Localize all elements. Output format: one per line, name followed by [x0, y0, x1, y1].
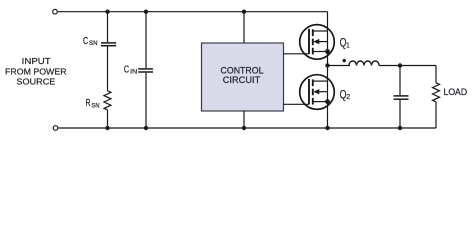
svg-text:CIRCUIT: CIRCUIT [223, 75, 261, 85]
junction dot top rail CIN [144, 10, 148, 14]
wire load top [435, 66, 437, 83]
wire control to Q2 gate [284, 103, 310, 105]
junction output node [398, 63, 402, 67]
wire Q1 drain [327, 12, 329, 52]
label Q1 [340, 36, 350, 50]
wire top rail [58, 11, 328, 13]
svg-text:INPUT: INPUT [22, 56, 52, 66]
wire CSN to RSN [107, 47, 109, 91]
svg-text:FROM POWER: FROM POWER [5, 67, 67, 77]
label INPUT FROM POWER SOURCE [5, 56, 67, 87]
wire output capacitor bottom [399, 100, 401, 128]
wire CIN bottom [145, 73, 147, 128]
input terminal bottom [53, 126, 58, 131]
junction dot top rail control [242, 10, 246, 14]
resistor LOAD [433, 83, 440, 102]
input terminal top [53, 9, 58, 14]
svg-text:LOAD: LOAD [444, 87, 468, 97]
junction switch node [325, 63, 329, 67]
capacitor CIN [138, 69, 153, 72]
svg-text:IN: IN [130, 68, 137, 75]
wire Q2 source [327, 102, 329, 128]
svg-text:SOURCE: SOURCE [16, 77, 55, 87]
transistor Q1 [300, 25, 335, 60]
wire Q1 source to switch node [327, 52, 329, 66]
svg-text:C: C [83, 36, 88, 47]
svg-text:C: C [124, 65, 129, 76]
wire load bottom [435, 102, 437, 128]
control circuit block [202, 43, 284, 111]
label CIN [124, 65, 138, 76]
svg-text:1: 1 [346, 42, 349, 49]
label CSN [83, 36, 98, 47]
junction dot bottom rail control [242, 126, 246, 130]
wire control to Q1 gate [284, 53, 310, 55]
wire Q2 drain [327, 66, 329, 102]
capacitor CSN [101, 43, 116, 46]
wire control circuit top [243, 12, 245, 43]
inductor phase dot [343, 59, 346, 62]
junction dot bottom rail Q2 [325, 126, 329, 130]
wire inductor to output [379, 65, 436, 67]
svg-text:SN: SN [92, 103, 100, 110]
svg-text:2: 2 [346, 94, 350, 101]
junction dot bottom rail RSN [105, 126, 109, 130]
wire output capacitor top [399, 66, 401, 96]
wire switch node to inductor [328, 65, 351, 67]
label RSN [86, 98, 100, 110]
wire RSN bottom [107, 110, 109, 128]
wire bottom rail [58, 127, 436, 129]
output capacitor [394, 96, 409, 99]
wire CSN top [107, 12, 109, 43]
transistor Q2 [300, 75, 335, 110]
inductor [349, 61, 379, 66]
resistor RSN [104, 91, 111, 110]
junction dot top rail CSN [105, 10, 109, 14]
svg-text:CONTROL: CONTROL [221, 65, 264, 75]
wire control circuit bottom [243, 111, 245, 128]
junction dot bottom rail CIN [144, 126, 148, 130]
svg-text:SN: SN [89, 40, 98, 47]
svg-text:R: R [86, 98, 91, 109]
junction dot bottom rail output capacitor [398, 126, 402, 130]
label Q2 [340, 88, 351, 102]
wire CIN top [145, 12, 147, 68]
